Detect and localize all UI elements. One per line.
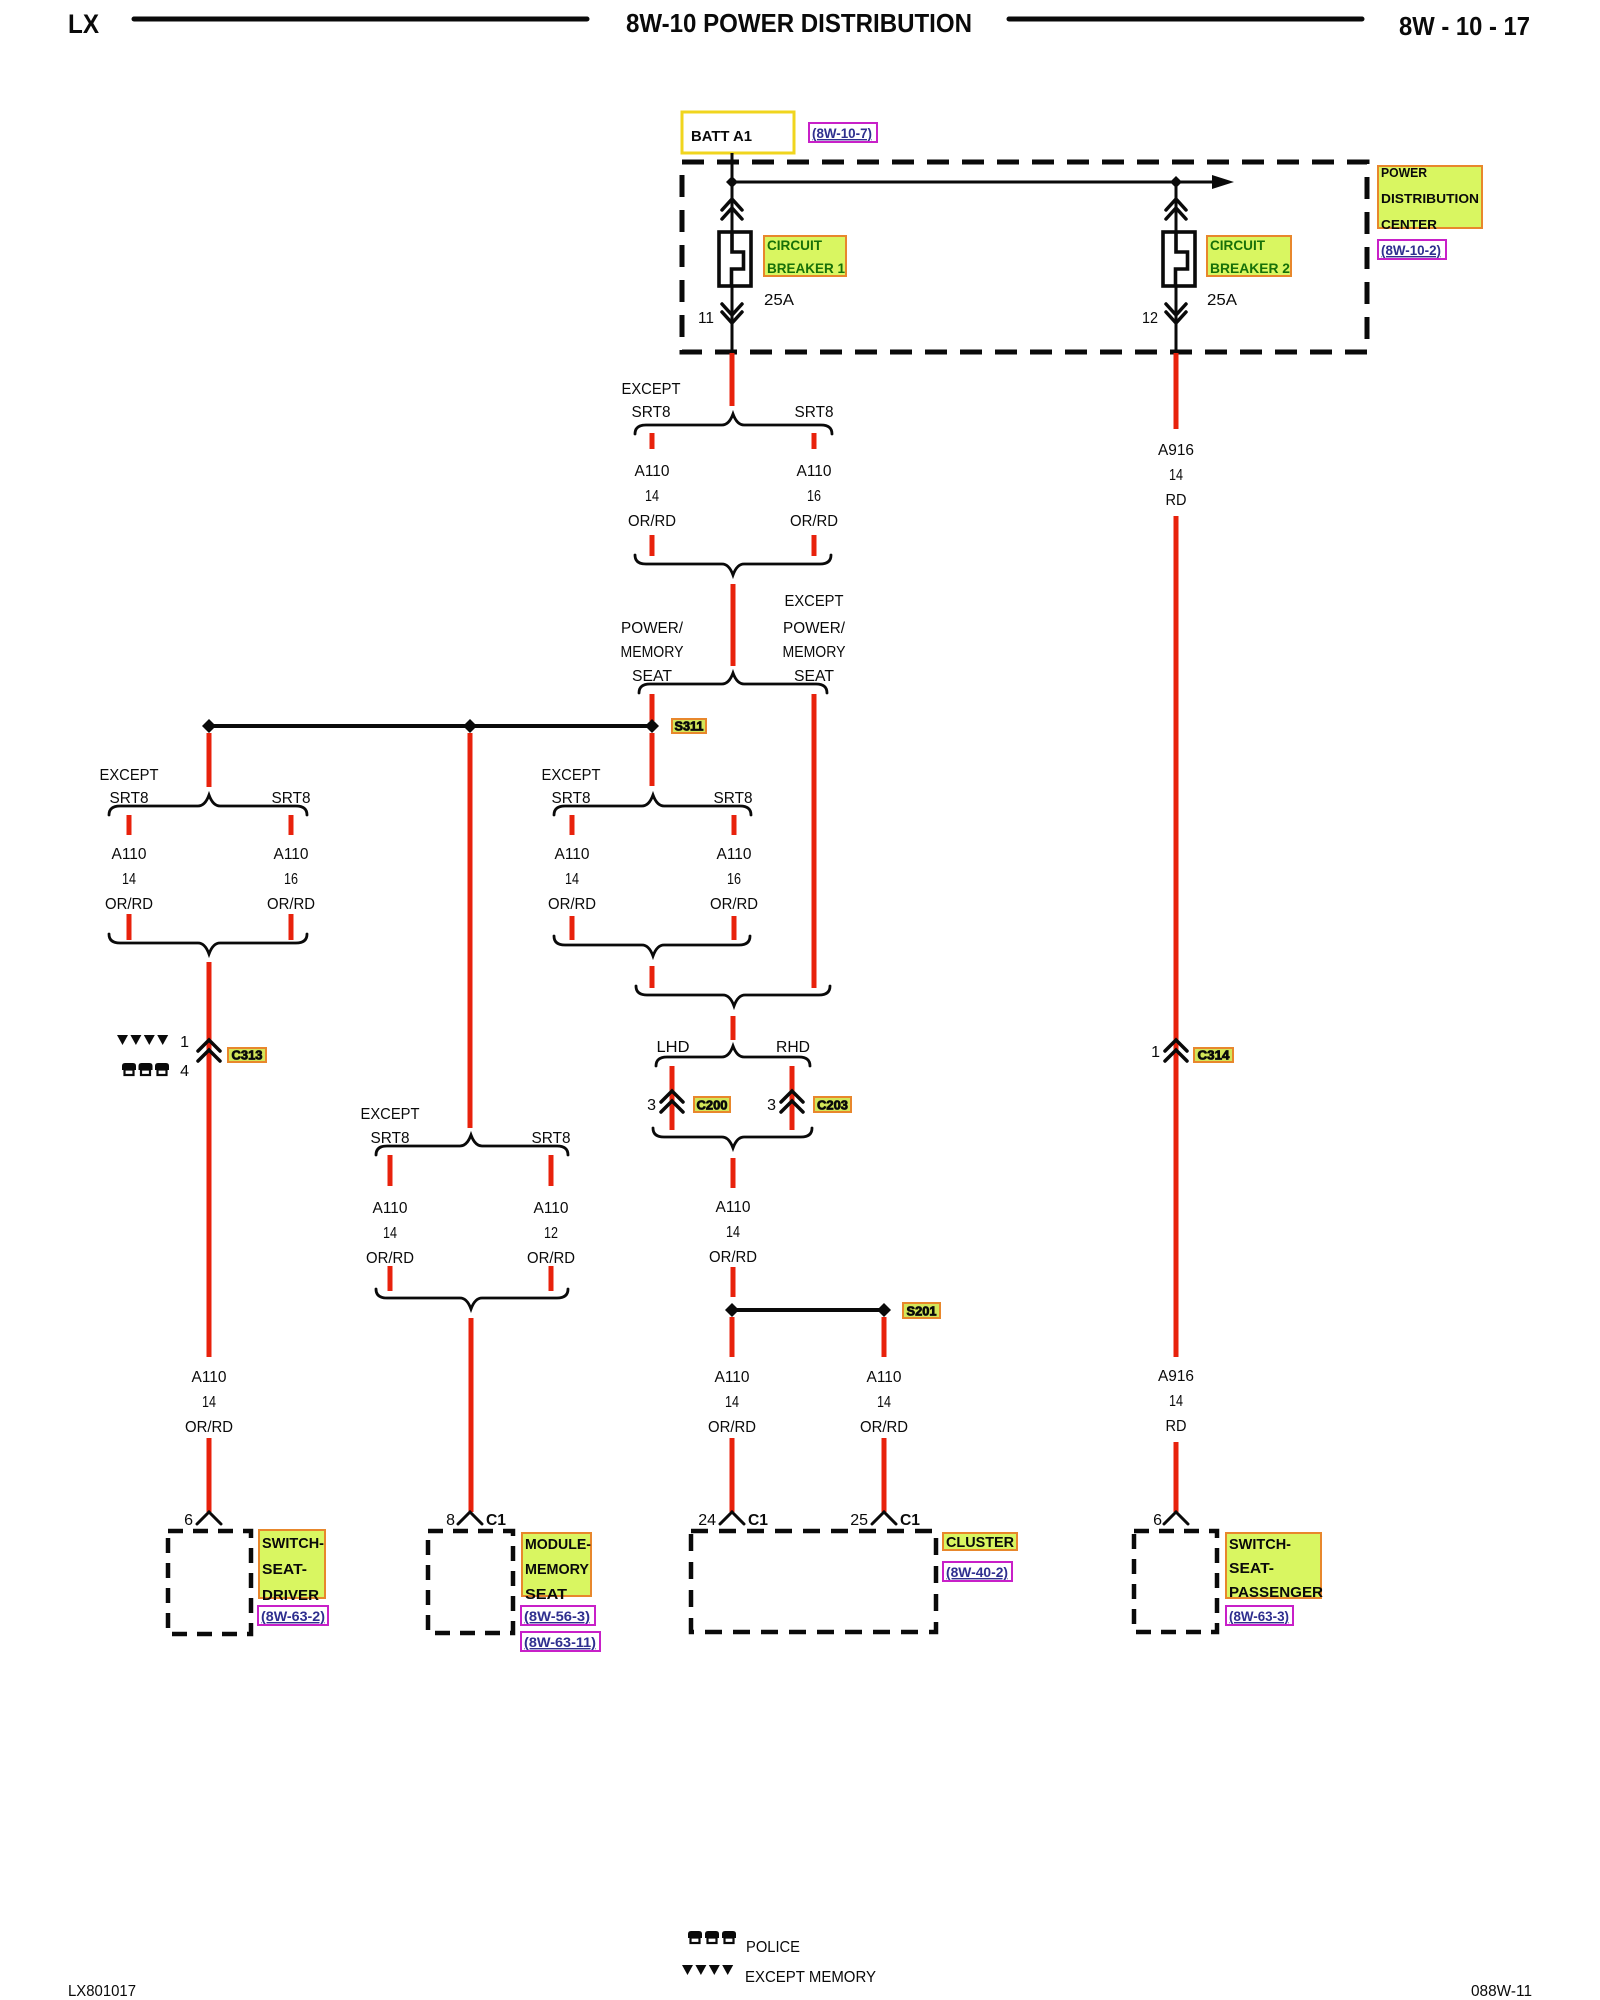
node junction at breaker 1 feed xyxy=(726,176,738,188)
svg-text:OR/RD: OR/RD xyxy=(708,1419,756,1436)
svg-text:6: 6 xyxy=(184,1512,193,1529)
component MODULE-MEMORY SEAT dashed box xyxy=(428,1531,513,1633)
component SWITCH-SEAT-PASSENGER dashed box xyxy=(1134,1531,1217,1632)
svg-text:1: 1 xyxy=(180,1034,189,1051)
link 8W-10-7 xyxy=(809,123,877,142)
svg-text:SRT8: SRT8 xyxy=(272,790,311,807)
svg-text:OR/RD: OR/RD xyxy=(628,513,676,530)
svg-text:POLICE: POLICE xyxy=(746,1939,800,1956)
wire brace to splice S311 xyxy=(650,694,655,721)
svg-text:C1: C1 xyxy=(748,1512,768,1529)
svg-text:3: 3 xyxy=(767,1097,776,1114)
svg-text:OR/RD: OR/RD xyxy=(709,1249,757,1266)
svg-text:A110: A110 xyxy=(555,846,590,863)
node splice S311 left xyxy=(202,719,216,733)
svg-text:14: 14 xyxy=(565,871,579,888)
node splice S311 right xyxy=(645,719,659,733)
svg-text:16: 16 xyxy=(807,488,821,505)
label SWITCH-SEAT-DRIVER xyxy=(259,1530,325,1598)
wire merge to connector C313 xyxy=(207,962,212,1357)
wire stub lower right xyxy=(812,535,817,556)
wire stub module-a upper xyxy=(388,1155,393,1186)
wire stub lower left xyxy=(650,535,655,556)
label POWER DISTRIBUTION CENTER xyxy=(1378,166,1482,228)
svg-text:(8W-10-7): (8W-10-7) xyxy=(812,125,872,141)
svg-text:SRT8: SRT8 xyxy=(532,1130,571,1147)
svg-text:SEAT: SEAT xyxy=(632,668,672,685)
svg-text:1: 1 xyxy=(1151,1044,1160,1061)
wire A916 long drop xyxy=(1174,516,1179,1357)
label CIRCUIT BREAKER 2 xyxy=(1207,236,1291,276)
connector C200 chevrons pin 3 xyxy=(661,1091,683,1102)
wire stub module-b lower xyxy=(549,1266,554,1291)
svg-text:(8W-63-11): (8W-63-11) xyxy=(524,1634,596,1650)
svg-text:A110: A110 xyxy=(797,463,832,480)
label MODULE-MEMORY SEAT xyxy=(522,1533,591,1596)
svg-text:16: 16 xyxy=(727,871,741,888)
wire A110 from CB1 xyxy=(730,353,735,406)
option brace LHD/RHD xyxy=(656,1046,810,1066)
wire stub A110 16 upper xyxy=(812,433,817,449)
svg-text:EXCEPT: EXCEPT xyxy=(785,593,844,610)
wire S201 right drop xyxy=(882,1317,887,1357)
wire CB1 to PDC edge xyxy=(731,286,734,352)
connector chevrons below circuit breaker 1 xyxy=(722,304,742,315)
component SWITCH-SEAT-DRIVER dashed box xyxy=(168,1531,251,1634)
svg-text:POWER/: POWER/ xyxy=(621,620,684,637)
svg-text:OR/RD: OR/RD xyxy=(267,896,315,913)
label C203 xyxy=(814,1097,851,1112)
svg-text:C1: C1 xyxy=(900,1512,920,1529)
wire A916 from CB2 xyxy=(1174,353,1179,429)
merge brace LHD/RHD xyxy=(653,1128,812,1148)
svg-text:SWITCH-: SWITCH- xyxy=(1229,1536,1291,1553)
svg-text:A110: A110 xyxy=(717,846,752,863)
wire EXCEPT POWER/MEMORY SEAT long drop xyxy=(812,694,817,988)
svg-text:CENTER: CENTER xyxy=(1381,217,1438,232)
label C314 xyxy=(1194,1048,1233,1062)
svg-text:A110: A110 xyxy=(112,846,147,863)
wire stub module-a lower xyxy=(388,1266,393,1291)
svg-text:SEAT-: SEAT- xyxy=(1229,1560,1274,1577)
arrowhead on bus xyxy=(1212,175,1234,189)
svg-text:8: 8 xyxy=(446,1512,455,1529)
svg-text:(8W-56-3): (8W-56-3) xyxy=(524,1608,590,1624)
svg-text:A916: A916 xyxy=(1158,1368,1194,1385)
svg-text:A110: A110 xyxy=(534,1200,569,1217)
link 8W-63-2 xyxy=(258,1606,328,1625)
connector pin 6 chevron passenger xyxy=(1164,1512,1188,1524)
svg-text:(8W-40-2): (8W-40-2) xyxy=(946,1564,1008,1580)
svg-text:LX801017: LX801017 xyxy=(68,1983,136,2000)
svg-text:SRT8: SRT8 xyxy=(714,790,753,807)
legend police icons xyxy=(688,1931,702,1938)
svg-text:25A: 25A xyxy=(1207,292,1237,309)
wire drop to passenger seat switch xyxy=(1174,1442,1179,1512)
svg-text:C313: C313 xyxy=(232,1048,263,1063)
connector pin 8 chevron C1 module xyxy=(458,1512,482,1524)
legend police boxes pin 4 xyxy=(122,1063,136,1070)
svg-text:OR/RD: OR/RD xyxy=(105,896,153,913)
wire stub RHD xyxy=(790,1066,795,1130)
svg-text:CIRCUIT: CIRCUIT xyxy=(767,237,822,253)
svg-text:MODULE-: MODULE- xyxy=(525,1536,591,1553)
link 8W-10-2 xyxy=(1378,240,1446,259)
svg-text:14: 14 xyxy=(202,1394,216,1411)
svg-text:POWER/: POWER/ xyxy=(783,620,846,637)
wire stub A110 14 upper xyxy=(650,433,655,449)
svg-text:MEMORY: MEMORY xyxy=(621,644,684,661)
svg-text:14: 14 xyxy=(122,871,136,888)
node junction at breaker 2 feed xyxy=(1170,176,1182,188)
svg-text:(8W-63-2): (8W-63-2) xyxy=(261,1608,325,1624)
svg-text:RD: RD xyxy=(1166,1418,1187,1435)
svg-text:A110: A110 xyxy=(715,1369,750,1386)
svg-text:12: 12 xyxy=(544,1225,558,1242)
connector chevrons above circuit breaker 2 xyxy=(1166,199,1186,210)
legend triangles except-memory pin 1 xyxy=(117,1035,128,1045)
link 8W-56-3 xyxy=(521,1606,595,1625)
connector pin 6 chevron driver xyxy=(197,1512,221,1524)
wire stub module-b upper xyxy=(549,1155,554,1186)
svg-text:OR/RD: OR/RD xyxy=(790,513,838,530)
wire merge to memory seat module xyxy=(469,1318,474,1512)
svg-text:A110: A110 xyxy=(274,846,309,863)
wire stub left-a upper xyxy=(127,815,132,835)
wire to LHD/RHD brace xyxy=(731,1016,736,1040)
svg-text:LHD: LHD xyxy=(657,1039,690,1056)
svg-text:A110: A110 xyxy=(192,1369,227,1386)
svg-text:SRT8: SRT8 xyxy=(632,404,671,421)
wire BATT A1 to circuit breaker 1 xyxy=(731,153,734,232)
svg-text:OR/RD: OR/RD xyxy=(527,1250,575,1267)
svg-text:BATT A1: BATT A1 xyxy=(691,128,752,145)
legend except-memory triangles xyxy=(682,1965,693,1975)
svg-text:CLUSTER: CLUSTER xyxy=(946,1534,1014,1551)
svg-text:EXCEPT: EXCEPT xyxy=(542,767,601,784)
svg-text:MEMORY: MEMORY xyxy=(525,1561,589,1578)
svg-text:11: 11 xyxy=(698,310,714,327)
svg-text:DISTRIBUTION: DISTRIBUTION xyxy=(1381,191,1479,206)
svg-text:SEAT-: SEAT- xyxy=(262,1561,307,1578)
svg-text:SRT8: SRT8 xyxy=(371,1130,410,1147)
component CLUSTER dashed box xyxy=(691,1531,936,1632)
wire splice S201 horizontal xyxy=(732,1308,884,1312)
svg-text:6: 6 xyxy=(1153,1512,1162,1529)
svg-text:SEAT: SEAT xyxy=(794,668,834,685)
svg-text:4: 4 xyxy=(180,1063,189,1080)
svg-text:OR/RD: OR/RD xyxy=(710,896,758,913)
wire merge to wide brace xyxy=(650,966,655,988)
svg-text:8W - 10 - 17: 8W - 10 - 17 xyxy=(1399,11,1530,41)
wire S311 right drop xyxy=(650,733,655,786)
svg-text:14: 14 xyxy=(645,488,659,505)
svg-text:OR/RD: OR/RD xyxy=(185,1419,233,1436)
node splice S311 middle xyxy=(463,719,477,733)
connector chevrons above circuit breaker 1 xyxy=(722,199,742,210)
wire stub center-a lower xyxy=(570,916,575,940)
wire stub LHD xyxy=(670,1066,675,1130)
svg-text:DRIVER: DRIVER xyxy=(262,1587,319,1604)
svg-text:A110: A110 xyxy=(635,463,670,480)
svg-text:(8W-10-2): (8W-10-2) xyxy=(1381,242,1441,258)
svg-text:LX: LX xyxy=(68,9,99,39)
svg-text:A916: A916 xyxy=(1158,442,1194,459)
svg-text:A110: A110 xyxy=(867,1369,902,1386)
svg-text:PASSENGER: PASSENGER xyxy=(1229,1584,1323,1601)
svg-text:14: 14 xyxy=(383,1225,397,1242)
svg-text:24: 24 xyxy=(698,1512,716,1529)
power distribution center dashed box xyxy=(682,162,1367,352)
wire stub left-b upper xyxy=(289,815,294,835)
svg-text:SWITCH-: SWITCH- xyxy=(262,1535,324,1552)
merge brace wide with seat branch xyxy=(636,986,830,1006)
svg-text:14: 14 xyxy=(1169,1393,1183,1410)
svg-text:S201: S201 xyxy=(907,1304,937,1319)
connector pin 25 chevron C1 xyxy=(872,1512,896,1524)
wire S201 left drop xyxy=(730,1317,735,1357)
option brace EXCEPT SRT8 module xyxy=(376,1135,568,1155)
svg-text:3: 3 xyxy=(647,1097,656,1114)
svg-text:SRT8: SRT8 xyxy=(552,790,591,807)
svg-text:16: 16 xyxy=(284,871,298,888)
wire S311 left drop xyxy=(207,733,212,787)
option brace POWER/MEMORY SEAT xyxy=(639,673,827,693)
svg-text:14: 14 xyxy=(725,1394,739,1411)
option brace EXCEPT SRT8 center xyxy=(554,795,751,815)
svg-text:SRT8: SRT8 xyxy=(110,790,149,807)
label S201 xyxy=(903,1303,940,1318)
wire stub center-b lower xyxy=(732,916,737,940)
svg-text:BREAKER 1: BREAKER 1 xyxy=(767,260,845,276)
option brace EXCEPT SRT8 / SRT8 top xyxy=(635,414,832,434)
svg-text:A110: A110 xyxy=(716,1199,751,1216)
link 8W-40-2 xyxy=(943,1562,1012,1581)
svg-text:(8W-63-3): (8W-63-3) xyxy=(1229,1608,1289,1624)
svg-text:MEMORY: MEMORY xyxy=(783,644,846,661)
merge brace left xyxy=(109,934,307,954)
circuit breaker CB2 symbol xyxy=(1163,232,1195,286)
svg-text:EXCEPT MEMORY: EXCEPT MEMORY xyxy=(745,1969,876,1986)
svg-text:BREAKER 2: BREAKER 2 xyxy=(1210,260,1290,276)
connector C203 chevrons pin 3 xyxy=(781,1091,803,1102)
wire drop to cluster pin 25 xyxy=(882,1438,887,1512)
svg-text:POWER: POWER xyxy=(1381,165,1428,180)
node splice S201 left xyxy=(725,1303,739,1317)
svg-text:088W-11: 088W-11 xyxy=(1471,1983,1532,2000)
svg-text:C200: C200 xyxy=(697,1098,728,1113)
svg-text:A110: A110 xyxy=(373,1200,408,1217)
wire CB2 to PDC edge xyxy=(1175,286,1178,352)
svg-text:25: 25 xyxy=(850,1512,868,1529)
wire stub center-b upper xyxy=(732,815,737,835)
link 8W-63-3 xyxy=(1226,1606,1293,1625)
svg-text:C1: C1 xyxy=(486,1512,506,1529)
node splice S201 right xyxy=(877,1303,891,1317)
connector C314 chevrons pin 1 xyxy=(1165,1040,1187,1051)
link 8W-63-11 xyxy=(521,1632,600,1651)
svg-text:14: 14 xyxy=(877,1394,891,1411)
svg-text:EXCEPT: EXCEPT xyxy=(622,381,681,398)
svg-text:EXCEPT: EXCEPT xyxy=(361,1106,420,1123)
wire stub center-a upper xyxy=(570,815,575,835)
svg-text:OR/RD: OR/RD xyxy=(366,1250,414,1267)
option brace EXCEPT SRT8 left xyxy=(109,795,307,815)
label SWITCH-SEAT-PASSENGER xyxy=(1226,1533,1321,1598)
label CLUSTER xyxy=(943,1533,1017,1550)
svg-text:CIRCUIT: CIRCUIT xyxy=(1210,237,1265,253)
label S311 xyxy=(672,719,706,733)
label C200 xyxy=(694,1097,730,1112)
svg-text:S311: S311 xyxy=(675,719,704,734)
svg-text:25A: 25A xyxy=(764,292,794,309)
svg-text:14: 14 xyxy=(726,1224,740,1241)
merge brace module xyxy=(376,1289,568,1309)
wire stub left-a lower xyxy=(127,914,132,940)
svg-text:SEAT: SEAT xyxy=(525,1586,567,1603)
header left rule xyxy=(134,17,587,22)
wire to seat option brace xyxy=(731,584,736,666)
wire S311 middle drop xyxy=(468,733,473,1128)
wire bus drop to circuit breaker 2 xyxy=(1175,182,1178,232)
svg-text:OR/RD: OR/RD xyxy=(860,1419,908,1436)
wire bus across PDC xyxy=(732,181,1218,184)
svg-text:SRT8: SRT8 xyxy=(795,404,834,421)
svg-text:RHD: RHD xyxy=(776,1039,810,1056)
wire A110 to splice S201 xyxy=(731,1267,736,1297)
svg-text:RD: RD xyxy=(1166,492,1187,509)
connector C313 chevrons xyxy=(198,1040,220,1051)
merge brace center xyxy=(554,936,750,956)
header right rule xyxy=(1009,17,1362,22)
svg-text:OR/RD: OR/RD xyxy=(548,896,596,913)
connector pin 24 chevron C1 xyxy=(720,1512,744,1524)
svg-text:C203: C203 xyxy=(817,1098,848,1113)
wire splice S311 horizontal xyxy=(209,724,652,728)
wire stub left-b lower xyxy=(289,914,294,940)
label CIRCUIT BREAKER 1 xyxy=(764,236,846,276)
merge brace top xyxy=(635,555,831,575)
battery feed BATT A1 box xyxy=(682,112,794,153)
svg-text:8W-10 POWER DISTRIBUTION: 8W-10 POWER DISTRIBUTION xyxy=(626,8,972,38)
label C313 xyxy=(228,1048,266,1062)
connector chevrons below circuit breaker 2 xyxy=(1166,304,1186,315)
svg-text:14: 14 xyxy=(1169,467,1183,484)
svg-text:EXCEPT: EXCEPT xyxy=(100,767,159,784)
wire drop to cluster pin 24 xyxy=(730,1438,735,1512)
circuit breaker CB1 symbol xyxy=(719,232,751,286)
svg-text:12: 12 xyxy=(1142,310,1158,327)
wire merge to A110 label xyxy=(731,1158,736,1188)
svg-text:C314: C314 xyxy=(1198,1048,1231,1063)
wire drop to driver seat switch xyxy=(207,1438,212,1512)
